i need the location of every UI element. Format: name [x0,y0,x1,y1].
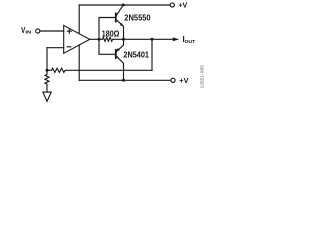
wire feedback riser left [46,48,48,71]
IOUT arrowhead [173,37,179,41]
junction dot feedback node left [46,69,49,72]
transistor Q2 emitter arrowhead [116,48,120,51]
wire op-amp V+ supply pin [78,5,80,34]
transistor Q1 emitter arrowhead [120,23,124,27]
resistor to ground vertical zigzag [45,70,49,92]
svg-text:2N5401: 2N5401 [123,50,149,60]
ground symbol [43,92,51,101]
op-amp plus sign [67,29,71,33]
power terminal +V (top) [170,3,174,7]
junction node A op-amp output [98,38,101,41]
power terminal +V (bottom) [171,78,175,82]
transistor Q1 2N5550 base bar [115,13,117,21]
transistor Q2 2N5401 base bar [115,50,117,58]
op-amp minus sign [67,46,71,48]
transistor Q2 emitter diagonal [117,39,124,51]
junction node B emitters [122,38,125,41]
wire riser node1 to PNP base [99,39,115,54]
junction dot top rail / Q1 collector [122,4,125,7]
svg-text:IN: IN [25,29,31,35]
op-amp U1 triangle [64,25,90,53]
wire top +V rail [79,4,170,6]
svg-text:+V: +V [179,76,188,85]
resistor feedback horizontal zigzag [47,68,152,72]
svg-text:2N5550: 2N5550 [124,12,151,22]
transistor Q2 collector diagonal [117,56,124,80]
wire IOUT output [124,38,174,40]
junction dot bottom rail / Q2 collector [122,79,125,82]
wire op-amp V- supply pin down to bottom rail [78,45,80,81]
svg-text:180Ω: 180Ω [102,28,120,38]
wire bottom +V rail [79,79,171,81]
input terminal VIN circle [36,29,40,33]
wire feedback sense riser right [151,39,153,70]
wire op-amp output [90,38,99,40]
wire VIN to noninverting input [40,30,64,32]
resistor 180 ohm zigzag [99,37,123,41]
wire riser node1 to NPN base [99,18,115,40]
wire inverting input [47,47,64,49]
junction dot feedback sense on IOUT wire [151,38,154,41]
transistor Q1 emitter diagonal [117,20,124,39]
transistor Q1 collector diagonal [117,5,124,15]
svg-text:10551-085: 10551-085 [200,65,205,89]
svg-text:+V: +V [178,1,187,10]
svg-text:OUT: OUT [185,39,196,45]
